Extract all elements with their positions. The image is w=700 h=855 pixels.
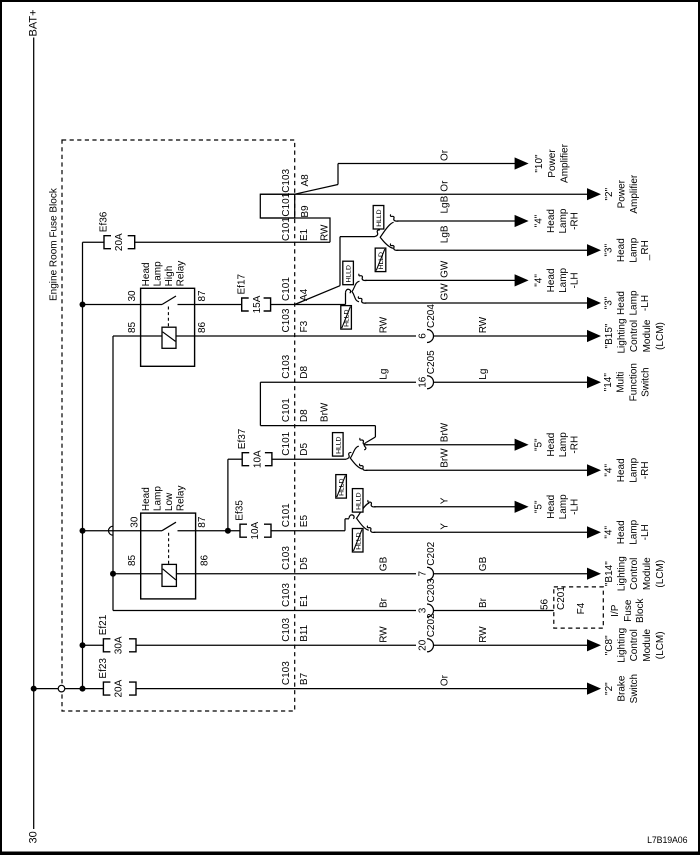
svg-text:C101: C101 [281, 192, 292, 216]
svg-text:Power: Power [617, 179, 628, 208]
svg-text:E5: E5 [299, 515, 310, 528]
svg-text:20: 20 [417, 639, 428, 651]
svg-text:Control: Control [629, 629, 640, 661]
svg-text:C101: C101 [281, 431, 292, 455]
svg-text:Br: Br [378, 597, 389, 608]
svg-text:GW: GW [440, 260, 451, 278]
svg-text:Relay: Relay [176, 486, 187, 512]
svg-text:-RH: -RH [640, 461, 651, 479]
svg-text:-RH: -RH [570, 212, 581, 230]
svg-text:15A: 15A [252, 295, 263, 313]
pin label 85 (high relay) [127, 321, 138, 333]
destination 4 Head Lamp -RH [534, 208, 581, 233]
option label HLLD crossed (BrW without) [336, 475, 347, 499]
svg-text:LgB: LgB [440, 225, 451, 243]
fuse Ef37 10A [237, 428, 272, 468]
svg-text:Power: Power [547, 149, 558, 178]
GW option splitter [352, 281, 360, 302]
svg-text:10A: 10A [252, 450, 263, 468]
svg-text:30: 30 [127, 290, 138, 302]
wire value RW (left of C202 lower) [378, 626, 389, 643]
svg-text:B9: B9 [300, 205, 311, 218]
wire LgB to 3 Head Lamp _RH [390, 244, 588, 251]
arrow to 4 Head Lamp -RH (lower) [587, 464, 601, 476]
wire E5 riser to Y splitter [345, 515, 354, 531]
destination B15 Lighting Control Module (LCM) [604, 318, 666, 353]
wire value Lg (right of C205) [478, 369, 489, 380]
fuse Ef17 15A [236, 273, 270, 313]
option label HLLD crossed (GW without) [341, 306, 352, 330]
connector label C101 pin E5 [281, 503, 310, 527]
wire value GB (left of C202) [378, 556, 389, 571]
wire value Y (lower) [440, 523, 451, 530]
wire A4 riser to GW splitter [346, 289, 351, 304]
option label HLLD crossed (LgB without) [375, 248, 386, 272]
svg-text:3: 3 [417, 607, 428, 613]
svg-text:C202: C202 [426, 613, 437, 637]
svg-text:"10": "10" [534, 154, 545, 173]
svg-text:C101: C101 [281, 277, 292, 301]
svg-text:Amplifier: Amplifier [559, 143, 570, 183]
svg-text:16: 16 [417, 376, 428, 388]
svg-text:GB: GB [478, 556, 489, 571]
svg-text:Block: Block [635, 597, 646, 622]
connector label C103 pin A8 [281, 168, 311, 192]
wire low relay 87 to fuse Ef35 [178, 530, 241, 532]
junction dot Ef35/Ef37 branch [225, 528, 231, 534]
inline connector 16 C205 [417, 350, 437, 389]
svg-text:Lamp: Lamp [153, 486, 164, 511]
svg-text:D8: D8 [299, 409, 310, 422]
destination 10 Power Amplifier [534, 143, 570, 183]
svg-text:"4": "4" [534, 214, 545, 227]
BrW option splitter [350, 446, 362, 469]
svg-text:"5": "5" [534, 438, 545, 451]
svg-text:HLLD: HLLD [355, 492, 362, 509]
I/P Fuse Block dashed box [554, 587, 604, 628]
svg-text:"2": "2" [604, 682, 615, 695]
svg-text:Ef36: Ef36 [99, 211, 110, 232]
wire Ef36 feed [83, 241, 105, 243]
high relay switch link (dashed) [167, 307, 169, 328]
svg-text:Lamp: Lamp [558, 267, 569, 292]
svg-text:I/P: I/P [610, 604, 621, 617]
svg-text:Br: Br [478, 597, 489, 608]
inline connector 7 C202 [417, 541, 437, 580]
wire Ef21 feed [83, 644, 104, 646]
svg-text:C204: C204 [426, 304, 437, 328]
svg-text:C103: C103 [281, 661, 292, 685]
svg-text:BrW: BrW [320, 402, 331, 422]
svg-text:Module: Module [642, 628, 653, 661]
svg-text:GB: GB [378, 556, 389, 571]
destination I/P Fuse Block [610, 597, 646, 622]
wire C103 A8 to 10 Power Amplifier (Or) [338, 163, 516, 165]
junction dot bus1 / high relay 30 row [80, 302, 86, 308]
svg-text:6: 6 [417, 333, 428, 339]
svg-text:Lg: Lg [478, 369, 489, 380]
wire value Br (left of C203) [378, 597, 389, 608]
wire high relay 86 to C103 F3 [176, 335, 416, 337]
svg-text:"4": "4" [534, 274, 545, 287]
svg-text:Control: Control [629, 558, 640, 590]
pin label 87 (low relay) [197, 516, 208, 528]
svg-text:20A: 20A [114, 233, 125, 251]
destination 2 Brake Switch [604, 674, 640, 703]
destination 3 Head Lamp _RH [603, 237, 651, 262]
svg-text:7: 7 [417, 570, 428, 576]
svg-text:C103: C103 [281, 354, 292, 378]
svg-text:D5: D5 [299, 557, 310, 570]
svg-text:C202: C202 [426, 541, 437, 565]
svg-text:HLLD: HLLD [339, 478, 346, 495]
svg-text:RW: RW [478, 316, 489, 333]
svg-text:C201: C201 [556, 586, 567, 610]
svg-text:LgB: LgB [440, 195, 451, 213]
svg-text:D8: D8 [299, 365, 310, 378]
wire Ef21 output to C103 B11 [136, 644, 416, 646]
wire value LgB (upper) [440, 195, 451, 213]
wire value RW at E1 [320, 224, 331, 241]
high relay coil [162, 327, 176, 348]
junction dot on BAT+ rail [31, 686, 37, 692]
wire value BrW at bridge [320, 402, 331, 422]
option label HLLD (LgB with) [373, 206, 384, 230]
wire Ef17 output to C101 A4 [271, 304, 346, 306]
LgB option splitter [380, 222, 393, 248]
svg-text:F4: F4 [576, 602, 587, 614]
svg-text:C103: C103 [281, 168, 292, 192]
svg-text:Head: Head [141, 487, 152, 511]
wire Ef35 output to C101 E5 [271, 530, 345, 532]
wire bus2 corner to C103 E1 (Br) [113, 610, 416, 612]
svg-text:Lamp: Lamp [628, 457, 639, 482]
svg-text:Lamp: Lamp [628, 519, 639, 544]
svg-text:Fuse: Fuse [623, 599, 634, 622]
arrow to C8 Lighting Control Module [587, 639, 601, 651]
svg-text:86: 86 [197, 321, 208, 333]
wire value GB (right of C202) [478, 556, 489, 571]
svg-text:Lamp: Lamp [558, 432, 569, 457]
low relay switch link (dashed) [168, 533, 170, 565]
svg-text:BrW: BrW [440, 422, 451, 442]
svg-text:Module: Module [642, 319, 653, 352]
svg-text:87: 87 [197, 516, 208, 528]
wire value LgB (lower) [440, 225, 451, 243]
svg-text:HLLD: HLLD [344, 309, 351, 326]
svg-text:E1: E1 [299, 594, 310, 607]
wire value GW (upper) [440, 260, 451, 278]
arrow to 5 Head Lamp -RH [515, 439, 529, 451]
svg-text:Lamp: Lamp [628, 237, 639, 262]
label BAT+ [28, 9, 40, 36]
svg-text:D5: D5 [299, 442, 310, 455]
wire bus1 to high relay 30 [83, 304, 163, 306]
svg-text:E1: E1 [299, 228, 310, 241]
svg-text:High: High [164, 266, 175, 287]
svg-text:Or: Or [440, 149, 451, 161]
low relay coil [162, 564, 176, 586]
svg-text:Head: Head [546, 433, 557, 457]
svg-text:HLLD: HLLD [378, 252, 385, 269]
wire diagonal A4 to LgB feeder [295, 237, 340, 305]
junction bridge link D8 (vertical) [259, 382, 261, 425]
junction dot bus1 / fuse Ef23 row [80, 686, 86, 692]
svg-text:"B15": "B15" [604, 323, 615, 348]
wire value Lg (left of C205) [378, 369, 389, 380]
svg-text:Amplifier: Amplifier [629, 174, 640, 214]
svg-text:Function: Function [628, 363, 639, 401]
wire C204 to B15 LCM [434, 335, 589, 337]
svg-text:Head: Head [616, 520, 627, 544]
wire value Y (upper) [440, 497, 451, 504]
svg-text:Head: Head [546, 495, 557, 519]
svg-text:"4": "4" [603, 464, 614, 477]
arrow to 10 Power Amplifier [515, 157, 529, 169]
svg-text:B7: B7 [299, 672, 310, 685]
svg-text:"3": "3" [603, 296, 614, 309]
svg-text:C103: C103 [281, 583, 292, 607]
svg-text:Lamp: Lamp [153, 261, 164, 286]
relay K1 Head Lamp High Relay box [141, 288, 195, 366]
destination 4 Head Lamp -RH (lower) [603, 457, 651, 482]
svg-text:(LCM): (LCM) [655, 631, 666, 659]
svg-text:Head: Head [616, 458, 627, 482]
svg-text:HLLD: HLLD [355, 532, 362, 549]
svg-text:20A: 20A [114, 679, 125, 697]
wire value Br (right of C203) [478, 597, 489, 608]
svg-text:56: 56 [540, 598, 551, 610]
destination 4 Head Lamp -LH (lower) [603, 519, 651, 544]
svg-text:A8: A8 [300, 174, 311, 187]
wire branch up to fuse Ef37 [228, 459, 242, 531]
option label HLLD (GW with) [343, 261, 354, 285]
svg-text:"3": "3" [603, 243, 614, 256]
svg-text:Head: Head [546, 268, 557, 292]
svg-text:Relay: Relay [176, 261, 187, 287]
svg-text:Lamp: Lamp [558, 494, 569, 519]
svg-text:-LH: -LH [640, 524, 651, 540]
svg-text:C103: C103 [281, 546, 292, 570]
svg-text:(LCM): (LCM) [655, 322, 666, 350]
fuse F4 label [576, 602, 587, 614]
wire C101 D8 BrW feeder [260, 426, 375, 450]
relay K2 Head Lamp Low Relay box [141, 513, 196, 599]
svg-text:10A: 10A [250, 521, 261, 539]
wire low relay 86 to C103 D5 [176, 573, 416, 575]
label Engine Room Fuse Block [49, 187, 60, 301]
svg-text:(LCM): (LCM) [655, 560, 666, 588]
wire C202 to C8 LCM [434, 644, 589, 646]
wire C203 to I/P Fuse Block [434, 610, 554, 612]
pin label 30 (low relay) [130, 516, 141, 528]
svg-text:Ef21: Ef21 [98, 614, 109, 635]
pin label 86 (low relay) [200, 554, 211, 566]
svg-text:-LH: -LH [570, 499, 581, 515]
svg-text:Y: Y [440, 523, 451, 530]
svg-text:87: 87 [197, 290, 208, 302]
connector label C101 pin D5 [281, 431, 310, 455]
BAT+ rail wire [33, 38, 35, 830]
Y option splitter [357, 503, 370, 530]
svg-text:BrW: BrW [440, 448, 451, 468]
svg-text:Engine Room Fuse Block: Engine Room Fuse Block [49, 187, 60, 301]
svg-text:Switch: Switch [629, 674, 640, 703]
connector label C103 pin D8 [281, 354, 310, 378]
svg-text:C203: C203 [426, 578, 437, 602]
svg-text:L7B19A06: L7B19A06 [647, 835, 687, 845]
connector label C101 pin E1 [281, 217, 310, 241]
arrow to 4 Head Lamp -RH [515, 215, 529, 227]
svg-text:RW: RW [478, 626, 489, 643]
svg-text:Low: Low [164, 492, 175, 511]
option label HLLD crossed (Y without) [352, 529, 363, 553]
fuse Ef36 20A [99, 211, 135, 251]
low relay switch blade [162, 522, 176, 531]
destination 5 Head Lamp -RH [534, 432, 581, 457]
destination 3 Head Lamp -LH [603, 290, 651, 315]
svg-text:C205: C205 [426, 350, 437, 374]
wire branch diagonal to C103 A8 [295, 164, 338, 195]
svg-text:HLLD: HLLD [376, 209, 383, 226]
wire Y to 4 Head Lamp -LH [367, 526, 588, 533]
svg-text:Module: Module [642, 557, 653, 590]
destination C8 Lighting Control Module (LCM) [604, 628, 666, 663]
wire BrW to 5 Head Lamp -RH [360, 438, 516, 445]
svg-text:Switch: Switch [640, 367, 651, 396]
option label HLLD (Y with) [352, 489, 363, 512]
pin label 56 at C201 [540, 598, 551, 610]
svg-text:Lighting: Lighting [617, 628, 628, 663]
svg-text:Lamp: Lamp [628, 290, 639, 315]
arrow to 3 Head Lamp _RH [587, 244, 601, 256]
svg-text:C101: C101 [281, 217, 292, 241]
svg-text:RW: RW [378, 316, 389, 333]
wire value Or (B9 row) [440, 180, 451, 192]
destination 5 Head Lamp -LH [534, 494, 581, 519]
svg-text:-LH: -LH [570, 272, 581, 288]
fuse Ef35 10A [235, 500, 271, 540]
inline connector 3 C203 [417, 578, 437, 617]
arrow to 2 Power Amplifier [587, 188, 601, 200]
feeder wire from BAT+ junction into fuse block (vertical bus 1) [82, 242, 84, 688]
Engine Room Fuse Block dashed outline [62, 140, 295, 711]
svg-text:RW: RW [378, 626, 389, 643]
pin label 86 (high relay) [197, 321, 208, 333]
arrow to B14 Lighting Control Module [587, 568, 601, 580]
connector label C103 pin E1 (Br) [281, 583, 310, 607]
svg-text:C101: C101 [281, 398, 292, 422]
connector label C103 pin B7 [281, 661, 310, 685]
svg-text:Or: Or [440, 674, 451, 686]
inline connector 6 C204 [417, 304, 437, 343]
junction dot bus1 / low relay 30 row [80, 528, 86, 534]
svg-text:Ef37: Ef37 [237, 428, 248, 449]
junction bridge box E1/RW [260, 218, 330, 242]
wire C202 to B14 LCM [434, 573, 589, 575]
wire value GW (lower) [440, 283, 451, 301]
arrow to 2 Brake Switch [587, 683, 601, 695]
destination B14 Lighting Control Module (LCM) [604, 556, 666, 591]
wire BrW to 4 Head Lamp -RH [359, 464, 588, 471]
high relay switch blade [162, 296, 176, 305]
wire Ef36 output to C101 E1 [135, 241, 330, 243]
fuse Ef21 30A [98, 614, 136, 654]
svg-text:C101: C101 [281, 503, 292, 527]
arrow to 4 Head Lamp -LH (lower) [587, 526, 601, 538]
svg-text:Or: Or [440, 180, 451, 192]
label Head Lamp High Relay [141, 261, 187, 287]
arrow to 5 Head Lamp -LH [515, 501, 529, 513]
feeder wire relay 85 bus (vertical bus 2) [112, 336, 114, 611]
crossover hop (no connection) at low relay 30 row [109, 526, 114, 535]
label Head Lamp Low Relay [141, 486, 186, 512]
connector label C103 pin D5 (GB) [281, 546, 310, 570]
svg-text:"B14": "B14" [604, 561, 615, 586]
destination 14 Multi Function Switch [603, 363, 651, 401]
wire high relay 87 to fuse Ef17 [178, 304, 242, 306]
svg-text:85: 85 [127, 321, 138, 333]
wire C205 to 14 Multi Function Switch [434, 381, 589, 383]
wire value Or (brake row) [440, 674, 451, 686]
svg-text:Lighting: Lighting [617, 556, 628, 591]
wire C103 D8 to 14 Multi Function Switch (Lg) [260, 381, 416, 383]
wire value RW (right of C202 lower) [478, 626, 489, 643]
option label HLLD (BrW with) [333, 433, 344, 457]
svg-text:85: 85 [127, 554, 138, 566]
svg-text:30: 30 [130, 516, 141, 528]
svg-text:"4": "4" [603, 526, 614, 539]
svg-text:Ef23: Ef23 [98, 658, 109, 679]
svg-text:"5": "5" [534, 500, 545, 513]
junction bridge box C101 B9 [260, 194, 294, 218]
svg-text:-RH: -RH [570, 436, 581, 454]
svg-text:30A: 30A [114, 636, 125, 654]
svg-text:Head: Head [616, 291, 627, 315]
svg-text:-LH: -LH [640, 295, 651, 311]
destination 2 Power Amplifier [604, 174, 640, 214]
wire value RW (left of C204) [378, 316, 389, 333]
svg-text:Lg: Lg [378, 369, 389, 380]
svg-text:BAT+: BAT+ [28, 9, 40, 36]
fuse Ef23 20A [98, 658, 136, 698]
wire Y to 5 Head Lamp -LH [368, 500, 516, 507]
svg-text:B11: B11 [299, 624, 310, 641]
wire bus2 to high relay 85 and coil [113, 335, 162, 337]
wire Ef23 output to C103 B7 [136, 688, 588, 690]
svg-text:RW: RW [320, 224, 331, 241]
wire C101 B9 to 2 Power Amplifier (Or) [260, 193, 588, 195]
arrow to 3 Head Lamp -LH [587, 297, 601, 309]
svg-text:Lamp: Lamp [558, 208, 569, 233]
svg-text:Lighting: Lighting [617, 318, 628, 353]
wire bus2 to low relay 85 and coil [113, 573, 162, 575]
svg-text:Head: Head [546, 209, 557, 233]
inline connector 20 C202 [417, 613, 437, 652]
drawing number L7B19A06 [647, 835, 687, 845]
svg-text:_RH: _RH [640, 240, 651, 261]
wire value RW (right of C204) [478, 316, 489, 333]
svg-text:"2": "2" [604, 187, 615, 200]
junction dot bus1 / fuse Ef21 row [80, 642, 86, 648]
svg-text:Y: Y [440, 497, 451, 504]
connector label C103 pin F3 [281, 308, 310, 332]
connector label C101 pin D8 (BrW) [281, 398, 310, 422]
svg-text:Ef17: Ef17 [236, 273, 247, 294]
svg-text:Head: Head [616, 238, 627, 262]
connector label C201 [556, 586, 567, 610]
svg-text:Control: Control [629, 320, 640, 352]
